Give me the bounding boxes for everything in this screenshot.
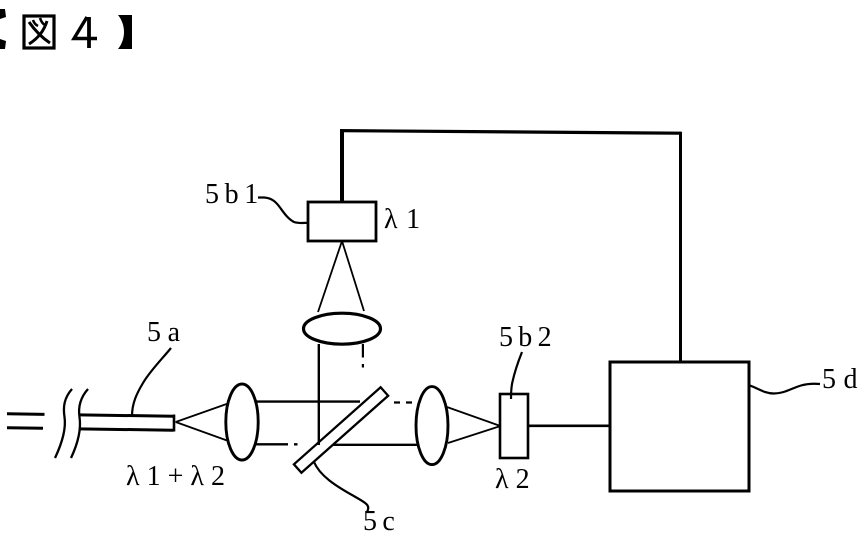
label lambda2 [495, 466, 537, 494]
label lambda1 [384, 206, 429, 234]
title glyph ZU (figure) [24, 16, 54, 48]
focusing lens left [226, 384, 258, 460]
collimating lens top [304, 313, 381, 344]
title bracket left (cut) [0, 9, 6, 49]
photodiode box 5b2 [500, 394, 528, 458]
label 5a [147, 319, 187, 347]
leader line 5c [314, 462, 368, 512]
laser box 5b1 [308, 202, 376, 241]
beam vertical from lens to splitter [318, 344, 320, 445]
leader line 5b2 [511, 352, 522, 399]
wire top horizontal [340, 131, 681, 134]
beam cone from 5b1 to lens [318, 241, 364, 312]
wire right vertical down to 5d [679, 132, 682, 362]
leader line 5a [132, 348, 171, 416]
label 5d [822, 366, 862, 394]
optical fiber 5a body [7, 414, 174, 432]
leader line 5b1 [258, 198, 308, 224]
control box 5d [610, 362, 749, 491]
label 5b1 [205, 181, 264, 209]
beam upper horizontal [256, 400, 361, 402]
fiber break mark left [55, 389, 72, 458]
title digit 4 [74, 17, 97, 48]
label 5b2 [499, 324, 557, 352]
fiber break mark right [71, 389, 88, 458]
label 5c [363, 508, 400, 536]
leader squiggle 5d [750, 384, 820, 394]
wire from 5b1 box top up [340, 130, 344, 204]
beam cone fiber to left lens [176, 404, 228, 441]
beam cone to 5b2 [446, 407, 500, 444]
label lambda1+lambda2 [126, 463, 232, 491]
wire 5b2 to 5d [528, 424, 610, 427]
focusing lens right [416, 387, 448, 465]
beam upper dashes right of splitter [394, 401, 412, 403]
beam mark right of lens [362, 344, 364, 368]
title bracket right [118, 15, 132, 49]
beam lower horizontal right [333, 444, 418, 446]
beam splitter 5c [294, 387, 388, 472]
beam lower horizontal left [256, 443, 298, 445]
